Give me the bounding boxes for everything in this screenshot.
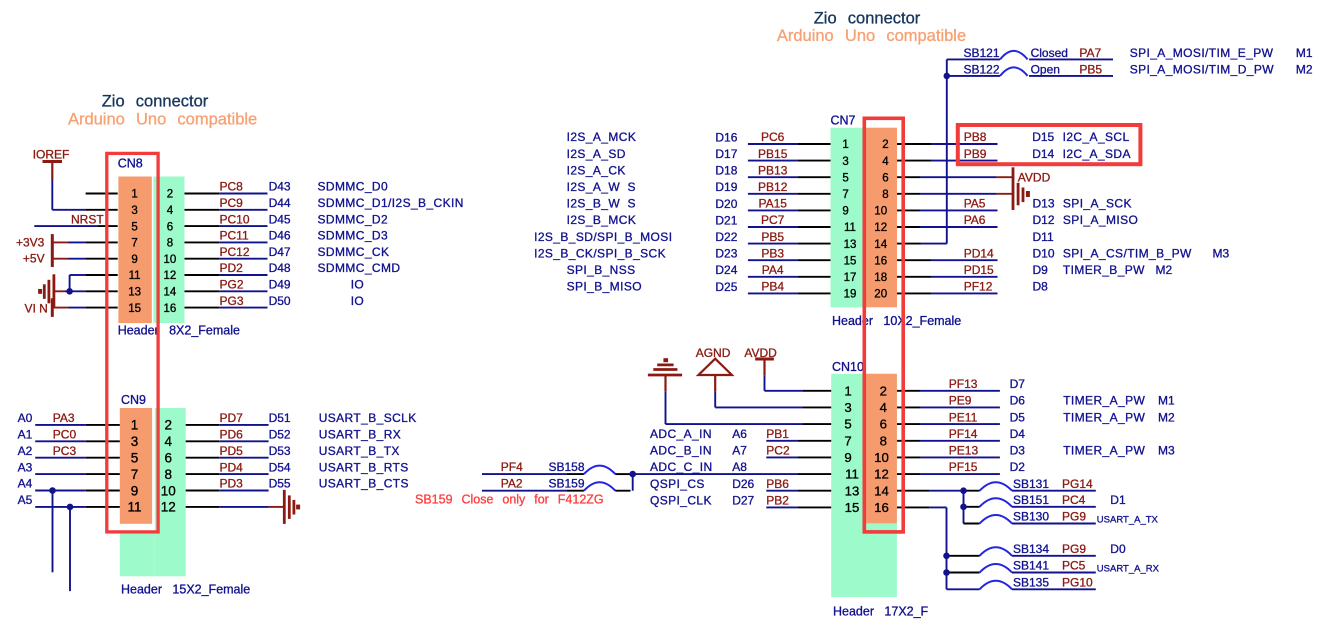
wire CN9 pin10 to net PD3: [186, 490, 220, 492]
svg-text:Arduino Uno compatible: Arduino Uno compatible: [68, 111, 257, 129]
svg-text:D15: D15: [1032, 130, 1054, 144]
svg-text:D27: D27: [732, 494, 754, 508]
svg-text:USART_A_RX: USART_A_RX: [1097, 564, 1160, 575]
wire CN9 pin2 to net PD7: [186, 424, 220, 426]
svg-text:PA4: PA4: [762, 263, 784, 277]
svg-text:CN10: CN10: [832, 360, 864, 374]
wire PB1 to CN10 pin7: [766, 440, 798, 442]
svg-text:SPI_B_MISO: SPI_B_MISO: [567, 280, 642, 294]
svg-text:PA15: PA15: [758, 197, 787, 211]
svg-text:A2: A2: [18, 444, 33, 458]
svg-text:ADC_A_IN: ADC_A_IN: [650, 427, 712, 441]
svg-text:PB9: PB9: [964, 147, 987, 161]
wire net PB13 to CN7 pin5: [748, 176, 798, 178]
wire CN7 pin2 to PB8: [897, 143, 931, 145]
svg-text:11: 11: [127, 500, 141, 515]
ground symbol GND (chassis): [53, 274, 56, 308]
svg-text:1: 1: [131, 189, 137, 201]
connector CN7 body: [831, 128, 864, 308]
wire CN10 pin14 to SB group: [897, 490, 929, 492]
svg-text:15: 15: [845, 500, 860, 515]
svg-text:D24: D24: [715, 263, 737, 277]
svg-text:D44: D44: [269, 196, 291, 210]
wire CN9 pin12 to GND: [186, 506, 220, 508]
svg-text:I2S_A_SD: I2S_A_SD: [567, 147, 626, 161]
svg-text:PC12: PC12: [220, 245, 250, 259]
wire CN7 pin4 to PB9: [897, 160, 931, 162]
svg-text:9: 9: [842, 206, 848, 218]
svg-text:SB121: SB121: [964, 46, 1000, 60]
svg-text:D54: D54: [269, 460, 291, 474]
svg-text:I2S_B_W S: I2S_B_W S: [567, 197, 636, 211]
svg-text:QSPI_CLK: QSPI_CLK: [650, 494, 712, 508]
svg-text:USART_B_CTS: USART_B_CTS: [319, 477, 409, 491]
wire CN10 pin16 to SB group: [897, 506, 929, 508]
svg-text:PB1: PB1: [766, 427, 789, 441]
svg-text:D19: D19: [715, 180, 737, 194]
svg-text:14: 14: [874, 483, 889, 498]
svg-text:PE11: PE11: [949, 410, 978, 424]
svg-text:I2S_B_CK/SPI_B_SCK: I2S_B_CK/SPI_B_SCK: [534, 246, 666, 260]
wire AVDD to CN10 pin1: [764, 376, 766, 391]
svg-text:5: 5: [842, 172, 848, 184]
wire PB6 to CN10 pin13: [766, 490, 798, 492]
svg-text:I2C_A_SDA: I2C_A_SDA: [1063, 147, 1131, 161]
wire GND to CN8 pin13: [54, 290, 65, 292]
svg-text:4: 4: [882, 156, 889, 168]
wire SB159 up to ADC_C_IN node: [632, 474, 634, 491]
svg-text:D17: D17: [715, 147, 737, 161]
svg-text:6: 6: [167, 221, 173, 233]
svg-text:D12: D12: [1033, 213, 1055, 227]
svg-text:PC2: PC2: [766, 444, 790, 458]
wire SB bus down to CN7 pin14: [946, 59, 948, 243]
svg-text:A0: A0: [18, 411, 33, 425]
svg-text:+3V3: +3V3: [16, 235, 45, 249]
junction ADC_C_IN node: [629, 471, 636, 478]
svg-text:D5: D5: [1010, 410, 1026, 424]
wire CN10 pin6 to net PE11: [897, 423, 920, 425]
svg-text:PF13: PF13: [949, 377, 978, 391]
ground symbol GND (chassis) at CN9 pin12: [283, 490, 286, 524]
wire CN7 pin16 to PD14: [897, 259, 931, 261]
svg-text:PB3: PB3: [761, 246, 784, 260]
wire net PB4 to CN7 pin19: [748, 292, 798, 294]
wire GND to CN10 pin5: [664, 375, 666, 391]
svg-text:SB135: SB135: [1013, 576, 1049, 590]
svg-text:SB158: SB158: [549, 460, 585, 474]
svg-text:12: 12: [874, 222, 887, 234]
svg-text:PC4: PC4: [1062, 493, 1086, 507]
svg-text:PB6: PB6: [766, 477, 789, 491]
wire CN10 pin12 to net PF15: [897, 473, 920, 475]
svg-text:PG9: PG9: [1062, 542, 1086, 556]
wire net PC6 to CN7 pin1: [748, 143, 798, 145]
svg-text:2: 2: [882, 139, 888, 151]
svg-text:A5: A5: [18, 493, 33, 507]
junction SB141 node: [943, 569, 950, 576]
svg-text:10: 10: [874, 206, 887, 218]
wire net PB12 to CN7 pin7: [748, 193, 798, 195]
red highlight box around CN7/CN10 pin column: [864, 118, 903, 532]
svg-text:D48: D48: [269, 261, 291, 275]
connector CN8 body: [118, 177, 151, 324]
svg-text:SDMMC_D0: SDMMC_D0: [318, 180, 389, 194]
wire A4 to CN9 pin9: [35, 490, 86, 492]
svg-text:PG9: PG9: [1062, 510, 1086, 524]
svg-text:SDMMC_D3: SDMMC_D3: [318, 229, 389, 243]
svg-text:QSPI_CS: QSPI_CS: [650, 477, 705, 491]
svg-text:D51: D51: [269, 411, 291, 425]
svg-text:2: 2: [165, 418, 173, 433]
svg-text:18: 18: [874, 272, 887, 284]
junction A5 node: [67, 504, 74, 511]
svg-text:I2S_A_W S: I2S_A_W S: [567, 180, 636, 194]
svg-text:PD2: PD2: [220, 261, 244, 275]
wire net PC7 to CN7 pin11: [748, 226, 798, 228]
svg-text:PF12: PF12: [964, 280, 993, 294]
wire ADC_C_IN to CN10 pin11: [633, 473, 798, 475]
svg-text:Open: Open: [1031, 62, 1060, 76]
svg-text:SPI_B_NSS: SPI_B_NSS: [567, 263, 636, 277]
svg-text:PG14: PG14: [1062, 477, 1093, 491]
wire IOREF to CN8 pin3: [51, 179, 53, 210]
svg-text:PD4: PD4: [220, 460, 244, 474]
svg-text:11: 11: [844, 222, 856, 234]
svg-text:12: 12: [161, 500, 176, 515]
wire CN9 pin8 to net PD4: [186, 473, 220, 475]
svg-text:A4: A4: [18, 477, 33, 491]
svg-text:9: 9: [131, 483, 139, 498]
wire CN8 pin12 to net PD2: [185, 274, 220, 276]
svg-text:I2S_B_SD/SPI_B_MOSI: I2S_B_SD/SPI_B_MOSI: [534, 230, 672, 244]
svg-text:19: 19: [844, 289, 857, 301]
svg-text:D6: D6: [1010, 394, 1026, 408]
svg-text:SB131: SB131: [1013, 477, 1049, 491]
svg-text:D10: D10: [1033, 246, 1055, 260]
svg-text:4: 4: [880, 400, 887, 415]
svg-text:7: 7: [131, 238, 137, 250]
svg-text:17: 17: [844, 272, 857, 284]
svg-text:I2S_B_MCK: I2S_B_MCK: [567, 213, 637, 227]
svg-text:D46: D46: [269, 229, 291, 243]
svg-text:D21: D21: [715, 213, 737, 227]
wire CN7 pin12 to PA6: [897, 226, 920, 228]
svg-text:PG3: PG3: [220, 294, 244, 308]
junction SB134 node: [943, 553, 950, 560]
svg-text:Zio connector: Zio connector: [814, 10, 921, 28]
wire CN9 pin6 to net PD5: [186, 457, 220, 459]
wire +3V3 to CN8 pin7: [52, 241, 68, 243]
svg-text:D22: D22: [715, 230, 737, 244]
svg-text:6: 6: [165, 451, 173, 466]
svg-text:CN8: CN8: [118, 157, 143, 171]
solder bridge SB130: [964, 523, 980, 525]
svg-text:7: 7: [131, 467, 139, 482]
svg-text:PD7: PD7: [220, 411, 244, 425]
svg-text:PC5: PC5: [1062, 559, 1086, 573]
wire CN7 pin18 to PD15: [897, 276, 931, 278]
svg-text:PF4: PF4: [501, 460, 523, 474]
solder bridge SB151: [964, 506, 980, 508]
svg-text:I2S_A_CK: I2S_A_CK: [567, 163, 626, 177]
wire AGND to CN10 pin3: [714, 375, 716, 391]
svg-text:8: 8: [167, 238, 173, 250]
wire CN10 pin8 to net PF14: [897, 440, 920, 442]
svg-text:D7: D7: [1010, 377, 1026, 391]
svg-text:7: 7: [842, 189, 848, 201]
svg-text:4: 4: [165, 434, 173, 449]
svg-text:8: 8: [880, 433, 887, 448]
svg-text:USART_B_RX: USART_B_RX: [319, 428, 401, 442]
svg-text:10: 10: [874, 450, 889, 465]
svg-text:PD15: PD15: [964, 263, 994, 277]
svg-text:D45: D45: [269, 212, 291, 226]
svg-text:A8: A8: [732, 460, 747, 474]
svg-text:Header 15X2_Female: Header 15X2_Female: [121, 583, 250, 597]
svg-text:14: 14: [874, 239, 887, 251]
wire +5V to CN8 pin9: [52, 258, 68, 260]
svg-text:AGND: AGND: [696, 346, 731, 360]
wire net PB15 to CN7 pin3: [748, 160, 798, 162]
svg-text:PA3: PA3: [53, 411, 75, 425]
svg-text:3: 3: [842, 156, 848, 168]
svg-text:PB2: PB2: [766, 494, 789, 508]
svg-text:D0: D0: [1110, 542, 1126, 556]
svg-text:M3: M3: [1158, 444, 1175, 458]
red highlight box around CN8/CN9 pin column: [107, 153, 158, 532]
svg-text:2: 2: [880, 383, 887, 398]
svg-text:PE9: PE9: [949, 394, 972, 408]
svg-text:TIMER_A_PW: TIMER_A_PW: [1063, 394, 1145, 408]
solder bridge SB141: [947, 572, 980, 574]
svg-text:TIMER_B_PW: TIMER_B_PW: [1063, 263, 1145, 277]
svg-text:1: 1: [844, 383, 851, 398]
wire CN7 pin14 to SB121/SB122 net: [897, 243, 921, 245]
power port AVDD: [1012, 167, 1015, 210]
svg-text:11: 11: [845, 467, 859, 482]
svg-text:5: 5: [131, 451, 139, 466]
svg-text:+5V: +5V: [23, 252, 45, 266]
junction SB122 node: [944, 73, 951, 80]
svg-text:10: 10: [164, 254, 177, 266]
svg-text:D3: D3: [1010, 444, 1026, 458]
svg-text:12: 12: [874, 467, 889, 482]
svg-text:PC7: PC7: [761, 213, 785, 227]
wire CN8 pin6 to net PC10: [185, 225, 220, 227]
svg-text:Zio connector: Zio connector: [102, 93, 209, 111]
svg-text:USART_B_TX: USART_B_TX: [319, 444, 400, 458]
svg-text:PD5: PD5: [220, 444, 244, 458]
svg-text:3: 3: [844, 400, 851, 415]
wire CN8 pin16 to net PG3: [185, 307, 220, 309]
svg-text:PB15: PB15: [758, 147, 788, 161]
svg-text:D8: D8: [1033, 280, 1049, 294]
svg-text:8: 8: [165, 467, 173, 482]
svg-text:15: 15: [844, 255, 857, 267]
svg-text:D43: D43: [269, 180, 291, 194]
wire PB2 to CN10 pin15: [766, 506, 798, 508]
svg-text:D14: D14: [1032, 147, 1054, 161]
svg-text:D16: D16: [715, 130, 737, 144]
svg-text:4: 4: [167, 205, 174, 217]
wire CN7 pin20 to PF12: [897, 292, 931, 294]
svg-text:D4: D4: [1010, 427, 1026, 441]
svg-text:14: 14: [164, 287, 177, 299]
svg-text:IO: IO: [351, 294, 364, 308]
svg-text:D53: D53: [269, 444, 291, 458]
svg-text:A1: A1: [18, 428, 33, 442]
wire A1 to CN9 pin3: [35, 440, 86, 442]
svg-text:PG2: PG2: [220, 278, 244, 292]
wire CN8 pin14 to net PG2: [185, 290, 220, 292]
svg-text:SB141: SB141: [1013, 559, 1049, 573]
wire SB bus vertical pin14: [963, 491, 965, 524]
wire CN10 pin2 to net PF13: [897, 390, 920, 392]
svg-text:D9: D9: [1033, 263, 1049, 277]
svg-text:PF15: PF15: [949, 460, 978, 474]
junction SB131 node: [960, 487, 967, 494]
svg-text:5: 5: [131, 221, 137, 233]
svg-text:M1: M1: [1296, 46, 1313, 60]
svg-text:SPI_A_CS/TIM_B_PW: SPI_A_CS/TIM_B_PW: [1063, 246, 1192, 260]
red highlight box around PB8/PB9 I2C nets: [958, 125, 1141, 164]
svg-text:6: 6: [880, 417, 887, 432]
svg-text:Header 17X2_F: Header 17X2_F: [833, 605, 929, 619]
wire A2 to CN9 pin5: [35, 457, 86, 459]
svg-text:SDMMC_D1/I2S_B_CKIN: SDMMC_D1/I2S_B_CKIN: [318, 196, 464, 210]
svg-text:13: 13: [845, 483, 860, 498]
svg-text:D25: D25: [715, 280, 737, 294]
junction SB151 node: [960, 504, 967, 511]
wire CN8 pin8 to net PC11: [185, 241, 220, 243]
svg-text:VI N: VI N: [25, 302, 48, 316]
svg-text:PC6: PC6: [761, 130, 785, 144]
svg-text:15: 15: [128, 303, 141, 315]
svg-text:PB8: PB8: [964, 130, 987, 144]
wire net PB3 to CN7 pin15: [748, 259, 798, 261]
svg-text:3: 3: [131, 205, 137, 217]
svg-text:D49: D49: [269, 278, 291, 292]
svg-text:CN9: CN9: [121, 393, 146, 407]
svg-text:A7: A7: [732, 444, 747, 458]
svg-text:A6: A6: [732, 427, 747, 441]
wire CN8 pin10 to net PC12: [185, 258, 220, 260]
svg-text:D50: D50: [269, 294, 291, 308]
svg-text:PB4: PB4: [761, 280, 784, 294]
svg-text:CN7: CN7: [831, 114, 856, 128]
svg-text:SB130: SB130: [1013, 510, 1049, 524]
svg-text:USART_B_RTS: USART_B_RTS: [319, 460, 409, 474]
svg-text:D13: D13: [1033, 197, 1055, 211]
svg-text:1: 1: [842, 139, 848, 151]
svg-text:PB5: PB5: [1079, 62, 1102, 76]
svg-text:M2: M2: [1296, 62, 1313, 76]
svg-text:8: 8: [882, 189, 888, 201]
svg-text:D2: D2: [1010, 460, 1026, 474]
svg-text:TIMER_A_PW: TIMER_A_PW: [1063, 444, 1145, 458]
svg-text:6: 6: [882, 172, 888, 184]
wire net PA15 to CN7 pin9: [748, 209, 798, 211]
svg-text:Closed: Closed: [1031, 46, 1068, 60]
svg-text:9: 9: [844, 450, 851, 465]
svg-text:PD6: PD6: [220, 428, 244, 442]
svg-text:PC11: PC11: [220, 229, 249, 243]
svg-text:PE13: PE13: [949, 444, 979, 458]
svg-text:I2C_A_SCL: I2C_A_SCL: [1063, 130, 1130, 144]
svg-text:PA7: PA7: [1079, 46, 1101, 60]
svg-text:16: 16: [874, 255, 887, 267]
svg-text:9: 9: [131, 254, 137, 266]
svg-text:SPI_A_MISO: SPI_A_MISO: [1063, 213, 1138, 227]
svg-text:Arduino Uno compatible: Arduino Uno compatible: [777, 27, 966, 45]
svg-text:PA2: PA2: [501, 477, 523, 491]
svg-text:Header 8X2_Female: Header 8X2_Female: [118, 324, 240, 338]
svg-text:SB151: SB151: [1013, 493, 1049, 507]
svg-text:13: 13: [128, 287, 141, 299]
svg-text:M2: M2: [1156, 263, 1173, 277]
svg-text:SB159 Close only for F412Z: SB159 Close only for F412ZG: [415, 493, 604, 507]
svg-text:D1: D1: [1110, 493, 1126, 507]
svg-text:M2: M2: [1158, 410, 1175, 424]
svg-text:5: 5: [844, 417, 851, 432]
svg-text:16: 16: [164, 303, 177, 315]
wire VIN to CN8 pin15: [52, 307, 68, 309]
svg-text:TIMER_A_PW: TIMER_A_PW: [1063, 410, 1145, 424]
svg-text:2: 2: [167, 189, 173, 201]
svg-text:D20: D20: [715, 197, 737, 211]
svg-text:PB13: PB13: [758, 163, 788, 177]
wire net PA4 to CN7 pin17: [748, 276, 798, 278]
wire A0 to CN9 pin1: [35, 424, 86, 426]
wire SB bus vertical pin16: [946, 507, 948, 589]
wire A5 to CN9 pin11: [35, 506, 86, 508]
svg-text:USART_A_TX: USART_A_TX: [1097, 515, 1159, 526]
svg-text:PC0: PC0: [53, 428, 77, 442]
svg-text:USART_B_SCLK: USART_B_SCLK: [319, 411, 417, 425]
svg-text:D47: D47: [269, 245, 291, 259]
svg-text:NRST: NRST: [71, 212, 104, 226]
svg-text:Header 10X2_Female: Header 10X2_Female: [832, 314, 961, 328]
wire CN8 pin2 to net PC8: [185, 193, 220, 195]
wire PC2 to CN10 pin9: [766, 456, 798, 458]
svg-text:SDMMC_CMD: SDMMC_CMD: [318, 261, 401, 275]
svg-text:PD14: PD14: [964, 246, 994, 260]
svg-text:ADC_C_IN: ADC_C_IN: [650, 460, 713, 474]
svg-text:12: 12: [164, 270, 177, 282]
wire CN10 pin10 to net PE13: [897, 456, 920, 458]
wire NRST to CN8 pin5: [34, 225, 98, 227]
wire CN10 pin4 to net PE9: [897, 406, 920, 408]
svg-text:PA5: PA5: [964, 197, 986, 211]
svg-text:16: 16: [874, 500, 889, 515]
svg-text:10: 10: [161, 483, 176, 498]
svg-text:D26: D26: [732, 477, 754, 491]
connector CN9 body: [155, 408, 186, 576]
svg-text:PC10: PC10: [220, 212, 250, 226]
svg-text:PC9: PC9: [220, 196, 244, 210]
svg-text:20: 20: [874, 289, 887, 301]
junction A4 node: [49, 487, 56, 494]
svg-text:AVDD: AVDD: [1018, 171, 1051, 185]
svg-text:I2S_A_MCK: I2S_A_MCK: [567, 130, 637, 144]
svg-text:PD3: PD3: [220, 477, 244, 491]
svg-text:PF14: PF14: [949, 427, 978, 441]
svg-text:SB159: SB159: [549, 477, 585, 491]
svg-text:13: 13: [844, 239, 857, 251]
svg-text:PC8: PC8: [220, 180, 244, 194]
svg-text:PA6: PA6: [964, 213, 986, 227]
